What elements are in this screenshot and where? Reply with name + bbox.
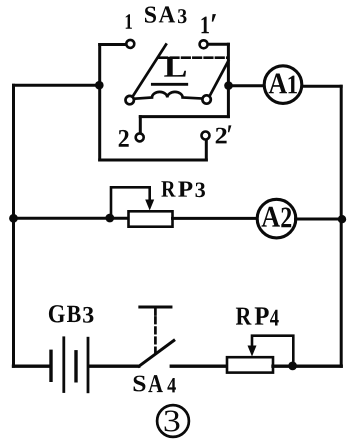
ammeter A2 xyxy=(257,199,296,238)
wire xyxy=(208,43,228,46)
label SA4 xyxy=(134,375,176,392)
wire xyxy=(273,365,341,368)
figure number 3 xyxy=(157,405,189,437)
resistor RP4 xyxy=(227,336,293,373)
junction xyxy=(95,81,104,90)
wire xyxy=(173,217,258,220)
wire xyxy=(14,84,100,87)
label L xyxy=(164,57,186,77)
wire xyxy=(171,365,227,368)
wire xyxy=(139,117,142,133)
switch SA3 xyxy=(126,40,229,141)
wire xyxy=(296,218,342,221)
label GB3 xyxy=(49,305,94,323)
label RP4 xyxy=(236,307,279,325)
node 1 xyxy=(126,14,132,28)
junction xyxy=(9,214,18,223)
wire xyxy=(100,159,207,162)
wire xyxy=(227,44,230,116)
battery GB3 xyxy=(51,338,88,392)
node 2 xyxy=(119,130,129,147)
junction xyxy=(105,214,114,223)
ammeter A1 xyxy=(264,66,302,104)
wire xyxy=(340,86,343,366)
wire xyxy=(100,43,126,46)
label SA3 xyxy=(145,6,187,23)
node 2' xyxy=(216,125,232,143)
resistor RP3 xyxy=(111,187,173,226)
wire xyxy=(98,45,101,161)
switch SA4 xyxy=(139,307,174,366)
junction xyxy=(224,81,233,90)
wire xyxy=(140,115,228,118)
inductor L xyxy=(135,92,202,99)
node 1' xyxy=(202,14,217,33)
wire xyxy=(14,365,50,368)
wire xyxy=(90,365,139,368)
wire xyxy=(12,85,15,366)
wire xyxy=(14,217,129,220)
label RP3 xyxy=(161,181,205,197)
junction xyxy=(338,215,346,223)
label L underline xyxy=(152,83,186,86)
wire xyxy=(302,85,342,88)
wire xyxy=(229,84,265,87)
junction xyxy=(288,362,297,371)
wire xyxy=(205,141,208,161)
